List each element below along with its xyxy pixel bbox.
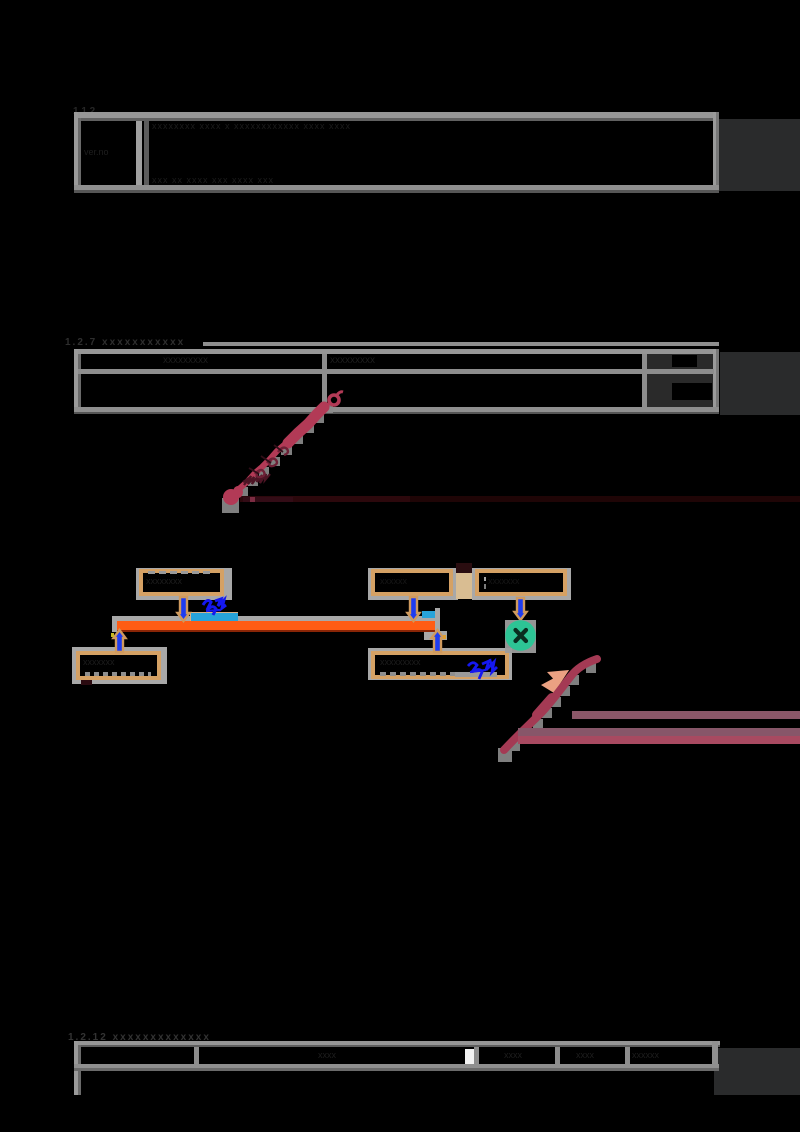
table T2 col3 body black text blob: [672, 383, 712, 400]
blue text blob 1: [203, 599, 226, 615]
T3 divider 3: [555, 1047, 560, 1064]
table T1 right border: [713, 112, 716, 192]
bridge beige between B2 and B3: [456, 572, 472, 599]
T3 divider 1: [194, 1047, 199, 1064]
stroke2 salmon arrowhead: [541, 670, 569, 693]
table T3 header bottom border: [74, 1064, 719, 1068]
arrow A4 up: [114, 630, 126, 652]
box B4 dark red smudge below: [81, 680, 92, 685]
bridge maroon mark: [456, 563, 472, 573]
T1 main text line1: [152, 121, 532, 131]
table T2 divider col1/col2: [322, 354, 327, 407]
table T1 divider light: [136, 121, 142, 185]
box B4 gray bottom marks: [85, 672, 151, 676]
box B5: [371, 651, 509, 679]
signature bottom blob: [223, 489, 239, 505]
box B2 faint text: [380, 576, 440, 588]
signature scribble cluster dark: [243, 474, 270, 485]
box B1 faint text: [146, 576, 221, 588]
arrow A5 up: [432, 630, 444, 652]
arrow A2 down: [408, 597, 420, 621]
bottom dark side panel: [714, 1048, 800, 1095]
table T2 col3 header black text blob: [672, 355, 697, 367]
orange bar halo top: [112, 616, 440, 621]
signature top knot: [329, 395, 339, 405]
teal circle halo: [505, 620, 536, 653]
T2 header c1 faint text: [163, 355, 243, 367]
cyan bar 1: [190, 612, 238, 621]
stroke2 crimson line: [504, 659, 597, 750]
arrow A3 down: [515, 598, 527, 620]
signature thick upper band: [288, 407, 324, 443]
arrow A1 down: [178, 597, 190, 621]
box B5 gray strip under blue text: [455, 672, 497, 677]
yellow speck near A5: [443, 635, 446, 639]
T3 header texts faint: [318, 1050, 358, 1060]
black X: [516, 630, 527, 641]
box B5 gray bottom marks: [380, 672, 500, 676]
orange bar halo right: [435, 608, 440, 632]
box B3 white cursor specks: [484, 577, 486, 581]
signature main stroke: [230, 405, 323, 499]
stroke2 thick mid band: [537, 698, 552, 715]
box B2 halo: [368, 568, 458, 600]
box B4 faint text: [83, 657, 153, 669]
table T1 dark side panel: [719, 119, 800, 191]
yellow speck near A4: [111, 633, 114, 637]
T3 white cursor: [465, 1049, 474, 1064]
signature gray halo blocks: [222, 405, 333, 513]
heading 1.1.2 faint: [73, 106, 113, 118]
table T1 top border dark line: [74, 118, 719, 121]
table T2 divider col2/col3: [642, 354, 647, 407]
table T1 bottom dark edge: [74, 190, 719, 193]
table T3 left border: [74, 1041, 78, 1095]
table T1 divider dark: [144, 121, 149, 185]
orange bar dark under edge: [117, 630, 435, 632]
table T2 dark side panel: [720, 352, 800, 415]
box B3 faint text: [488, 576, 558, 588]
orange bar halo right-bottom: [424, 631, 447, 640]
blue text blob 2 in B5: [468, 659, 497, 679]
table T2 col3 body cell shade: [647, 374, 713, 407]
heading 1.2.7 faint: [65, 337, 205, 349]
cyan bar 2: [422, 611, 435, 618]
box B4: [76, 651, 161, 680]
table T2 header bottom divider: [78, 369, 714, 374]
T1 main text line2: [152, 175, 432, 185]
box B5 halo: [368, 648, 512, 680]
table T2 right border: [713, 349, 716, 412]
orange bar: [117, 621, 435, 630]
box B1: [139, 569, 224, 596]
T2 header c2 faint text: [330, 355, 410, 367]
table T3 right border: [712, 1041, 718, 1071]
T1 cell1 faint text: [84, 147, 136, 161]
box B3 halo: [472, 568, 571, 600]
box B1 halo: [136, 568, 232, 600]
table T2 left border: [74, 349, 78, 412]
box B1 gray inner marks: [148, 571, 214, 574]
heading 1.2.12 faint: [68, 1032, 248, 1044]
stroke2 horizontal streak 1: [572, 711, 800, 719]
orange bar halo left: [112, 616, 117, 632]
table T2 top border: [74, 349, 719, 354]
stroke2 horizontal streak 2 upper: [518, 728, 800, 736]
teal circle: [505, 620, 536, 651]
T3 divider 4: [625, 1047, 630, 1064]
box B4 halo: [72, 647, 167, 684]
table T1 left border: [74, 112, 78, 192]
table T3 top border: [74, 1041, 720, 1045]
signature underline dark red: [240, 496, 800, 502]
heading rule line: [203, 342, 719, 346]
box B3: [475, 569, 567, 596]
table T1 bottom border: [74, 185, 719, 190]
T3 divider 2: [474, 1047, 479, 1064]
box B2: [371, 569, 453, 596]
table T1 top border bright: [74, 112, 719, 118]
stroke2 horizontal streak 2 lower: [518, 736, 800, 744]
stroke2 gray halo blocks: [498, 663, 596, 762]
table T2 col3 header cell shade: [647, 354, 713, 369]
table T2 bottom border: [74, 407, 719, 412]
box B5 faint text: [380, 657, 465, 669]
